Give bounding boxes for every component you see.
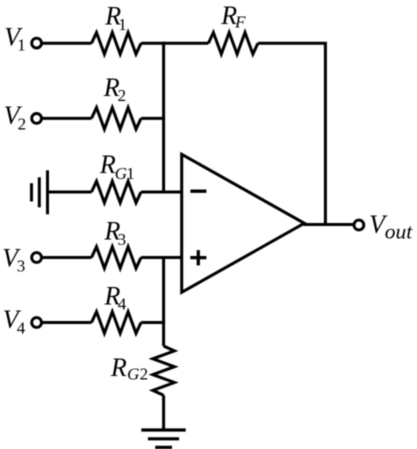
wire RG2 to ground — [162, 395, 165, 430]
svg-text:out: out — [385, 220, 414, 244]
wire V3 to R3 — [42, 256, 92, 259]
label RF — [220, 1, 246, 31]
svg-text:F: F — [234, 12, 246, 31]
svg-text:2: 2 — [140, 364, 149, 383]
label RG2 — [110, 353, 148, 384]
resistor R4 — [92, 312, 142, 334]
op-amp plus input symbol — [190, 256, 206, 259]
wire V1 to R1 — [42, 42, 92, 45]
svg-text:G: G — [127, 364, 139, 383]
wire R1 to RF (through inverting node) — [141, 42, 208, 45]
svg-text:4: 4 — [17, 318, 26, 337]
wire R3 to op-amp non-inverting input — [141, 256, 182, 259]
resistor R2 — [92, 108, 142, 130]
resistor RG2 — [153, 346, 175, 395]
ground (left, at RG1 input) — [32, 170, 48, 214]
wire op-amp output to Vout terminal — [304, 223, 354, 226]
svg-text:3: 3 — [118, 230, 127, 249]
wire R4 to non-inverting bus — [141, 321, 165, 324]
node Vout terminal — [354, 220, 364, 230]
wire R2 to inverting bus — [141, 117, 165, 120]
svg-text:3: 3 — [17, 257, 26, 276]
node V1 terminal — [32, 38, 42, 48]
resistor RG1 — [92, 181, 142, 203]
resistor R1 — [92, 33, 142, 55]
wire V2 to R2 — [42, 117, 92, 120]
wire V4 to R4 — [42, 321, 92, 324]
label V4 — [3, 305, 26, 337]
label Vout — [369, 210, 413, 243]
wire inverting bus — [162, 42, 165, 192]
label R1 — [104, 1, 126, 33]
op-amp minus input symbol — [190, 190, 206, 193]
svg-text:R: R — [110, 353, 127, 382]
label R2 — [103, 73, 126, 105]
wire non-inverting bus — [162, 258, 165, 347]
label R3 — [104, 216, 127, 249]
svg-text:1: 1 — [17, 35, 26, 54]
ground (bottom) — [141, 430, 185, 447]
label V2 — [4, 101, 26, 134]
svg-text:1: 1 — [118, 15, 127, 34]
wire RG1 to op-amp inverting input — [141, 191, 182, 194]
svg-text:1: 1 — [126, 164, 135, 183]
svg-text:2: 2 — [118, 86, 127, 105]
node V4 terminal — [32, 318, 42, 328]
node V3 terminal — [32, 253, 42, 263]
resistor RF — [208, 33, 258, 55]
svg-text:R: R — [99, 150, 116, 179]
label V1 — [4, 22, 26, 54]
label RG1 — [99, 150, 135, 183]
label R4 — [104, 281, 127, 313]
wire RF to output (top-right corner) — [258, 43, 326, 224]
node V2 terminal — [32, 114, 42, 124]
svg-text:2: 2 — [18, 115, 27, 134]
label V3 — [2, 243, 25, 275]
svg-text:4: 4 — [118, 294, 127, 313]
op-amp U1 — [182, 154, 305, 292]
wire ground to RG1 — [48, 191, 92, 194]
resistor R3 — [92, 247, 142, 269]
